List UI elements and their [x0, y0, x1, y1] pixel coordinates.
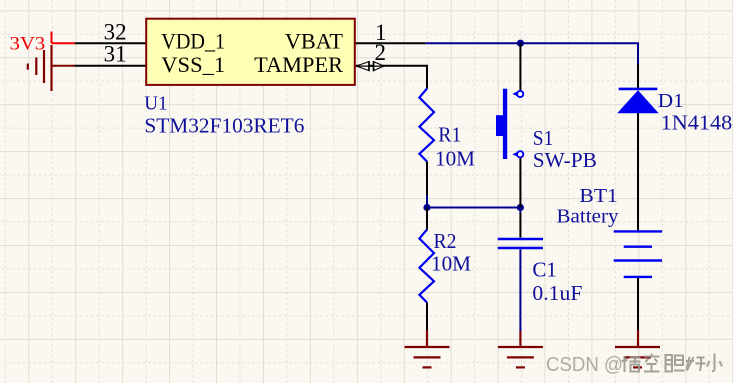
svg-text:D1: D1: [658, 90, 684, 112]
svg-text:STM32F103RET6: STM32F103RET6: [144, 113, 304, 137]
svg-text:VSS_1: VSS_1: [161, 52, 225, 77]
svg-text:32: 32: [104, 19, 127, 44]
svg-text:2: 2: [375, 40, 387, 65]
svg-text:3V3: 3V3: [10, 34, 46, 55]
svg-text:R2: R2: [434, 229, 457, 253]
svg-text:CSDN @: CSDN @: [546, 354, 623, 376]
svg-text:SW-PB: SW-PB: [533, 148, 597, 172]
svg-text:VDD_1: VDD_1: [161, 29, 225, 54]
svg-text:31: 31: [104, 42, 127, 67]
svg-text:C1: C1: [532, 258, 557, 282]
svg-text:R1: R1: [438, 123, 461, 147]
svg-text:10M: 10M: [431, 252, 471, 276]
svg-text:10M: 10M: [435, 147, 475, 171]
svg-text:1N4148: 1N4148: [661, 111, 733, 135]
svg-text:U1: U1: [144, 93, 167, 115]
svg-text:TAMPER: TAMPER: [254, 52, 343, 77]
svg-text:Battery: Battery: [557, 206, 619, 228]
svg-text:0.1uF: 0.1uF: [532, 281, 582, 305]
svg-text:BT1: BT1: [579, 185, 618, 207]
svg-text:S1: S1: [533, 126, 554, 150]
svg-text:VBAT: VBAT: [285, 29, 344, 54]
